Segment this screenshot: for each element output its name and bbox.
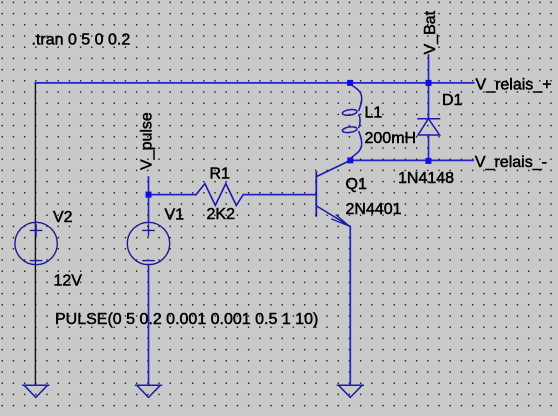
svg-text:V_pulse: V_pulse [139,112,156,170]
svg-text:Q1: Q1 [346,176,367,193]
svg-text:L1: L1 [365,105,383,122]
svg-text:D1: D1 [442,92,463,109]
svg-text:R1: R1 [210,166,231,183]
svg-text:2K2: 2K2 [207,206,236,223]
svg-text:1N4148: 1N4148 [398,170,454,187]
svg-text:V2: V2 [53,209,73,226]
svg-text:V_relais_-: V_relais_- [475,154,547,171]
svg-text:12V: 12V [54,273,83,290]
svg-text:.tran 0 5 0 0.2: .tran 0 5 0 0.2 [32,32,131,49]
svg-text:PULSE(0 5 0.2 0.001 0.001 0.5: PULSE(0 5 0.2 0.001 0.001 0.5 1 10) [55,311,318,328]
svg-text:V1: V1 [165,207,185,224]
svg-text:V_relais_+: V_relais_+ [476,76,552,93]
svg-text:200mH: 200mH [365,130,417,147]
svg-text:V_Bat: V_Bat [422,10,439,54]
svg-text:2N4401: 2N4401 [346,201,402,218]
